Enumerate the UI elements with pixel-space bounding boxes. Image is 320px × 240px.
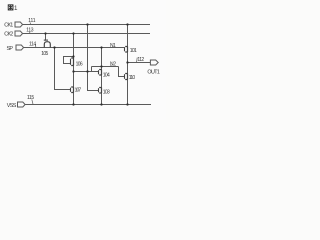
svg-text:N2: N2 [110, 61, 116, 67]
svg-text:OUT1: OUT1 [147, 69, 160, 75]
wire 103 source to VSS [101, 93, 103, 105]
svg-text:1: 1 [14, 5, 18, 12]
svg-text:CK2: CK2 [4, 32, 13, 38]
svg-text:110: 110 [129, 75, 136, 81]
svg-text:SP: SP [7, 46, 14, 52]
svg-text:111: 111 [28, 18, 35, 24]
wire OUT line 112 [128, 62, 151, 64]
svg-text:CK1: CK1 [4, 23, 13, 29]
transistor 106 [71, 58, 74, 66]
transistor 107 [71, 87, 74, 93]
svg-text:104: 104 [103, 73, 110, 79]
wire gate of 103 [88, 25, 99, 91]
wire node N2 [92, 66, 119, 68]
wire 106 source to 107 drain [73, 66, 75, 88]
figure title 図 1 [8, 5, 13, 10]
svg-text:107: 107 [75, 88, 82, 94]
wire N1 column down to 104 drain [101, 48, 103, 70]
wire 107 source to VSS [73, 93, 75, 105]
wire CK2 drop to 106 drain [73, 34, 75, 59]
junction dots [44, 23, 128, 105]
svg-text:112: 112 [137, 57, 144, 63]
transistor 104 [99, 70, 102, 76]
terminal SP [16, 45, 24, 50]
svg-text:105: 105 [41, 51, 48, 57]
transistor 110 [125, 74, 128, 80]
wire CK2 line 113 [23, 33, 150, 35]
wire gate jog of 110 [119, 67, 125, 77]
wire gate node of 104 [74, 71, 99, 73]
svg-text:N1: N1 [110, 43, 116, 49]
wire CK1 line 111 [23, 24, 150, 26]
wire gate of 107 [55, 48, 71, 90]
wire CK1 drop to 101 drain [127, 25, 129, 47]
wire VSS line 115 [25, 104, 151, 106]
terminal OUT1 [150, 60, 158, 65]
svg-text:VSS: VSS [7, 103, 17, 109]
svg-text:106: 106 [76, 62, 83, 68]
svg-text:114: 114 [29, 41, 36, 47]
svg-text:115: 115 [27, 95, 34, 101]
wire 110 source to VSS [127, 80, 129, 105]
wire 101 source to OUT node [127, 52, 129, 74]
wire SP / node N1 line 114 [24, 47, 125, 49]
wire 104 source to 103 drain [101, 75, 103, 88]
transistor 103 [99, 88, 102, 94]
wire diode loop of 104 [91, 67, 93, 72]
transistor 101 [125, 47, 128, 53]
terminal CK1 [15, 22, 23, 27]
wire diode loop of 106 [64, 57, 74, 64]
terminal CK2 [15, 31, 23, 36]
svg-text:103: 103 [103, 89, 110, 95]
terminal VSS [18, 102, 26, 107]
transistor 105 [44, 40, 51, 47]
svg-text:101: 101 [130, 48, 137, 54]
wire CK2 to gate of 105 [45, 34, 47, 41]
